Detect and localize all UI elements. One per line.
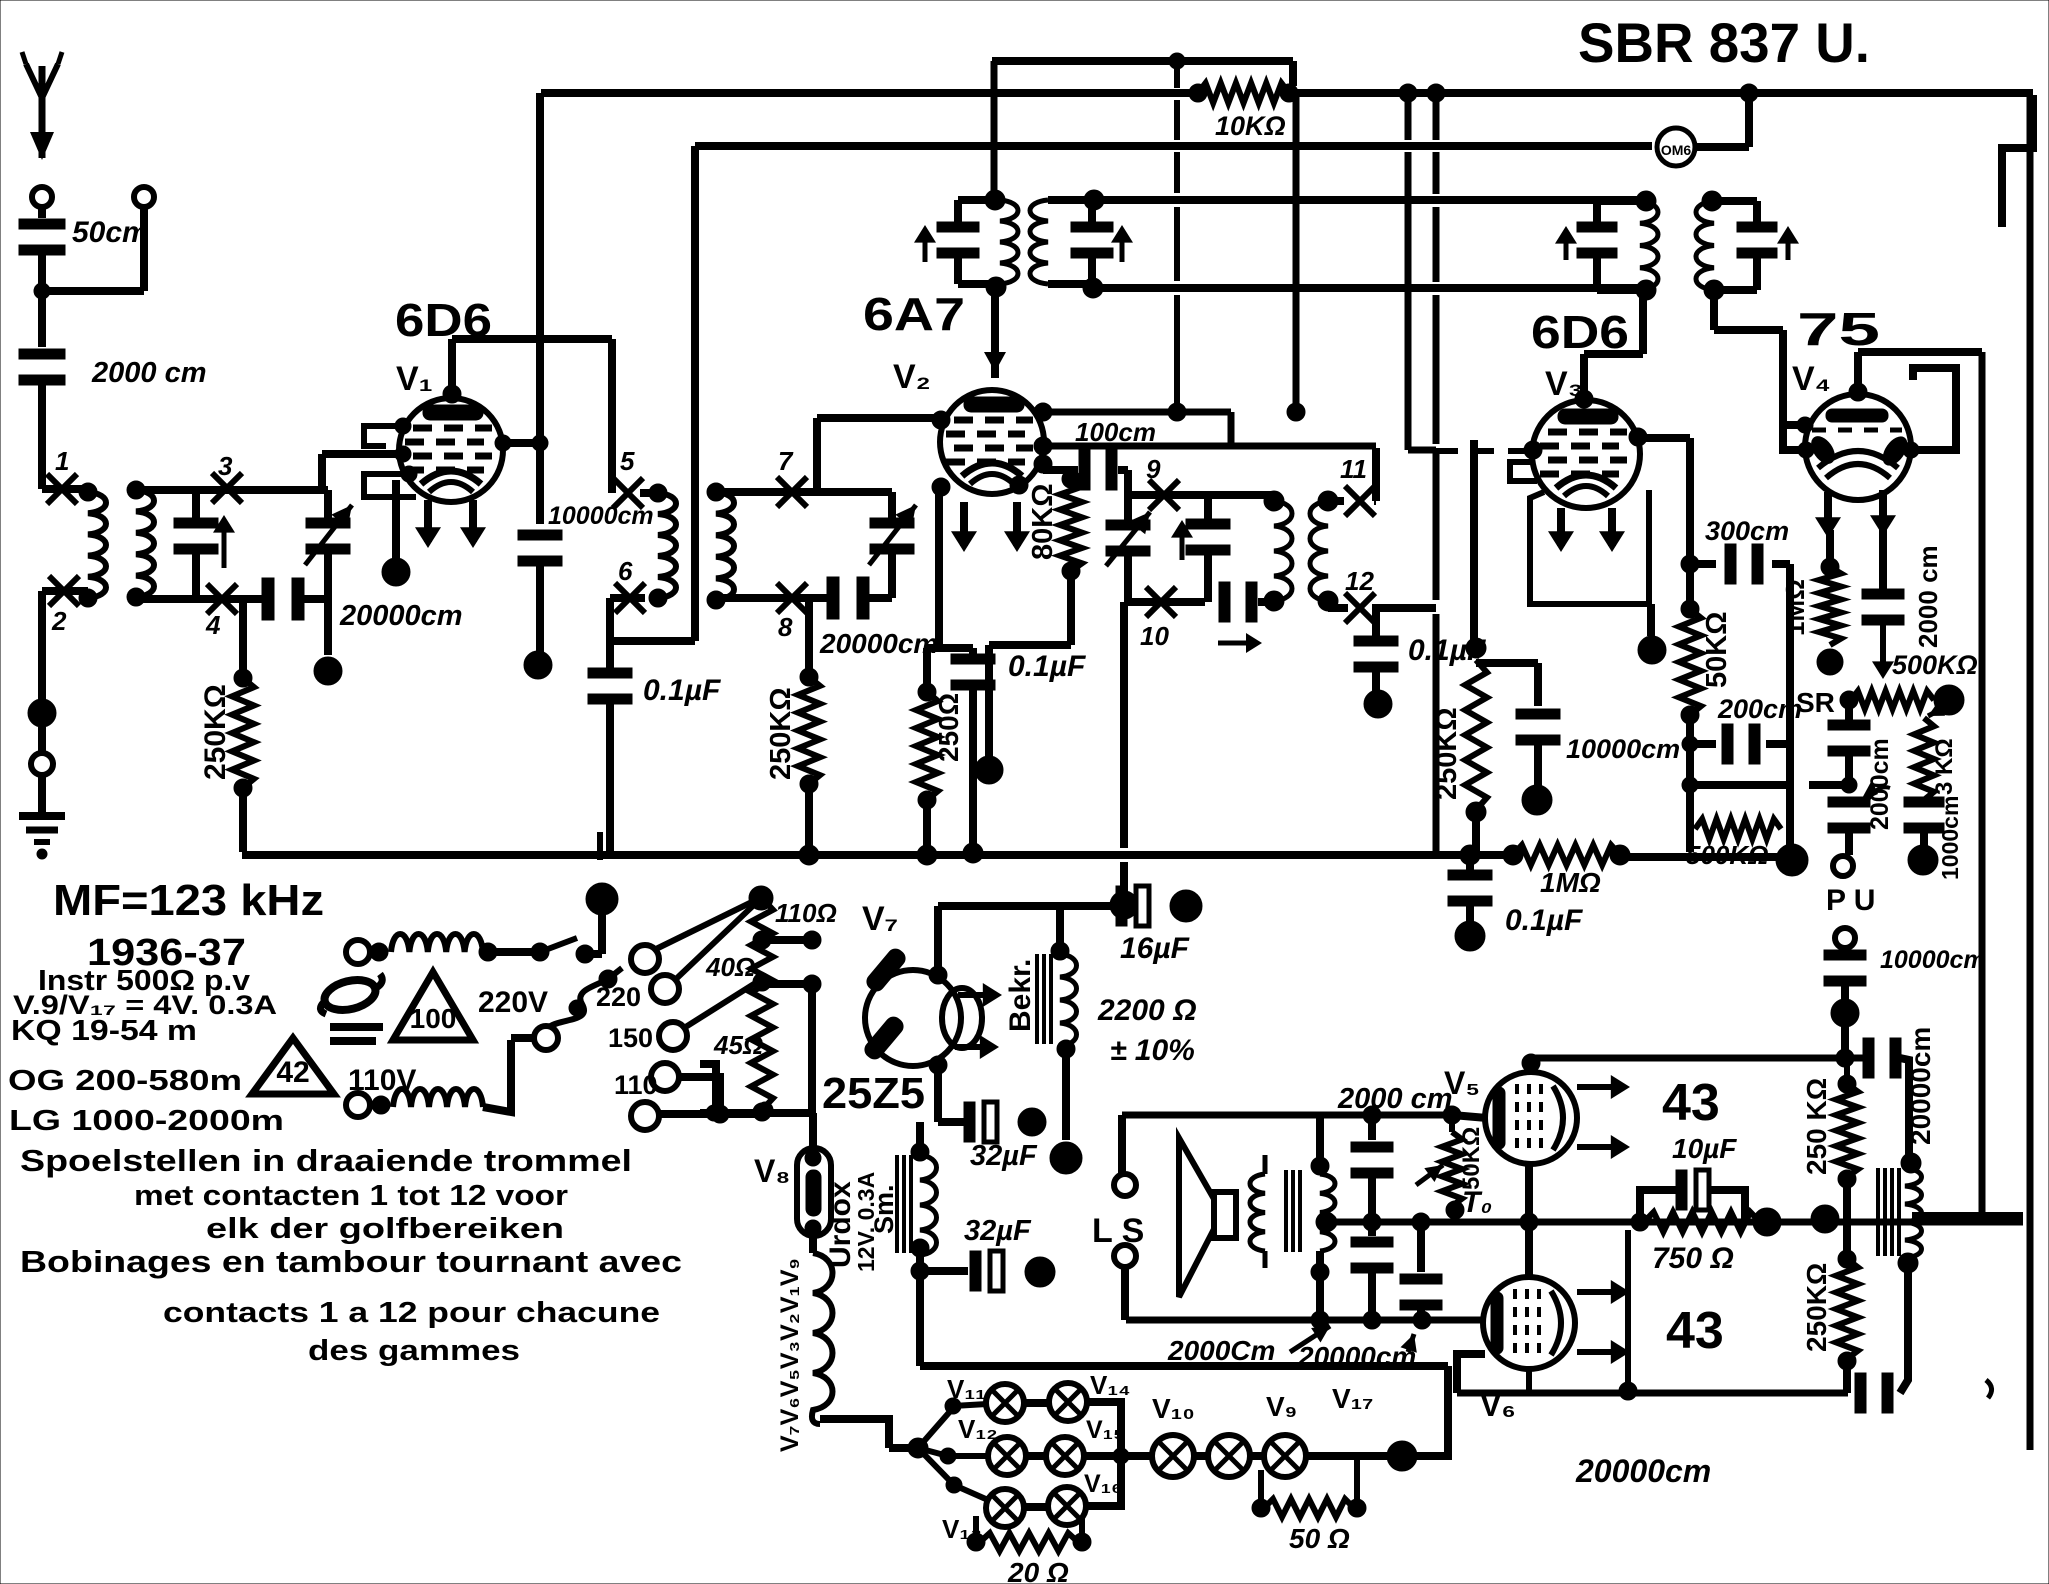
lever row1	[918, 1408, 953, 1448]
svg-text:110Ω: 110Ω	[775, 898, 837, 928]
vertical from bus C	[691, 146, 699, 641]
svg-text:L S: L S	[1092, 1212, 1144, 1250]
capacitor 300cm	[1690, 560, 1716, 568]
IF1 secondary coil	[1030, 200, 1048, 284]
svg-text:250KΩ: 250KΩ	[1431, 707, 1463, 800]
svg-text:0.1µF: 0.1µF	[643, 674, 721, 707]
vertical from bus A	[536, 93, 544, 524]
wire	[1258, 598, 1274, 606]
tube V2	[940, 390, 1044, 494]
resistor 50 ohm	[1252, 1499, 1270, 1517]
tube V4	[1805, 394, 1911, 500]
svg-text:V₄: V₄	[1792, 360, 1831, 398]
svg-text:100: 100	[410, 1003, 457, 1034]
svg-text:2: 2	[51, 606, 67, 636]
V3 bracket	[1510, 462, 1537, 481]
svg-text:250KΩ: 250KΩ	[765, 687, 797, 780]
wire	[1843, 1179, 1851, 1259]
wire	[1306, 1452, 1402, 1460]
svg-text:300cm: 300cm	[1705, 516, 1789, 546]
capacitor 2000cm spk1	[1363, 1106, 1381, 1124]
svg-text:2000 cm: 2000 cm	[1913, 545, 1943, 648]
V4 left pin wire	[1783, 440, 1806, 450]
wire	[1067, 571, 1075, 645]
V5 plate top	[1522, 1054, 1540, 1072]
resistor 10K	[1198, 83, 1289, 103]
V7 left tap wire	[808, 984, 816, 1113]
potentiometer To 50K	[1449, 1115, 1455, 1132]
speaker trafo secondary bottom	[1311, 1263, 1329, 1281]
svg-text:10000cm: 10000cm	[1880, 946, 1986, 974]
selector lever b	[676, 901, 758, 979]
wire node 4 rail	[136, 595, 262, 603]
svg-text:100cm: 100cm	[1075, 417, 1156, 447]
wire X10 drop	[1120, 602, 1128, 848]
tap	[753, 931, 771, 949]
contact 4	[207, 584, 237, 614]
contact 9	[1149, 480, 1179, 510]
resistor 1M vert	[1821, 558, 1839, 576]
capacitor 32uF a	[938, 1118, 968, 1126]
mark	[1986, 1380, 1992, 1398]
wire	[716, 488, 892, 496]
resistor 750	[1631, 1213, 1649, 1231]
wire	[1695, 143, 1749, 151]
right edge vertical	[2027, 95, 2034, 1450]
tube V5 (43)	[1485, 1072, 1577, 1164]
svg-text:110: 110	[614, 1070, 658, 1100]
V4 cathode arc	[1818, 451, 1898, 468]
vertical x1474	[1470, 440, 1478, 648]
svg-text:40Ω: 40Ω	[705, 952, 755, 982]
wire	[38, 207, 46, 218]
V4 top cap	[1826, 409, 1888, 422]
wire y785	[1690, 781, 1790, 789]
wire	[38, 775, 46, 812]
V1 plate wire	[495, 435, 511, 451]
svg-text:75: 75	[1797, 303, 1880, 355]
svg-text:250Ω: 250Ω	[933, 693, 964, 762]
bus E	[1093, 284, 1646, 292]
bus A left	[541, 89, 1194, 97]
arrow right small	[1218, 641, 1256, 646]
resistor 250 ohm	[918, 683, 936, 701]
wire	[1457, 1354, 1485, 1393]
V2 pin2	[1034, 437, 1052, 455]
capacitor 32uF b	[916, 1248, 924, 1271]
selector lever	[656, 899, 758, 949]
V4 diode plate left	[1807, 433, 1839, 468]
capacitor 0.1uF V2	[969, 648, 977, 656]
svg-text:V₁₂: V₁₂	[958, 1414, 998, 1444]
lamp V17	[1264, 1435, 1306, 1477]
V3 skirt	[1530, 492, 1649, 604]
V3 grid pin	[1524, 441, 1542, 459]
svg-text:2000 cm: 2000 cm	[1337, 1083, 1453, 1115]
IF1 primary cap	[954, 200, 962, 222]
svg-text:32µF: 32µF	[970, 1140, 1038, 1172]
V2 grid riser	[813, 418, 821, 492]
capacitor 100cm series	[1043, 466, 1078, 474]
IF1 arrow2	[1120, 231, 1125, 262]
wire	[991, 61, 998, 196]
svg-text:9: 9	[1146, 454, 1161, 484]
potentiometer SR	[1851, 691, 1934, 709]
switch coil 1	[346, 940, 370, 964]
svg-text:50KΩ: 50KΩ	[1701, 612, 1733, 688]
wire	[1625, 1230, 1631, 1391]
V2 top wire	[991, 288, 999, 378]
svg-text:20000cm: 20000cm	[1297, 1341, 1416, 1372]
arrow tuning	[222, 521, 227, 568]
svg-text:250 KΩ: 250 KΩ	[1801, 1078, 1832, 1175]
wire	[38, 385, 46, 489]
wire	[1263, 1155, 1268, 1174]
capacitor osc2 var	[1106, 520, 1150, 530]
capacitor 0.1uF osc2	[1372, 608, 1380, 636]
wire jog	[1408, 447, 1436, 454]
svg-text:Bobinages en tambour tournant: Bobinages en tambour tournant avec	[20, 1244, 682, 1279]
svg-text:V₉: V₉	[1266, 1391, 1297, 1422]
coil IF1a	[658, 493, 676, 598]
V4 top loop	[1849, 383, 1867, 401]
svg-text:8: 8	[778, 612, 793, 642]
vertical x1436 upper	[1433, 93, 1440, 140]
capacitor osc2 fixed	[1204, 495, 1212, 519]
wire	[1900, 1058, 1909, 1160]
svg-text:4: 4	[205, 610, 221, 640]
wire	[597, 832, 603, 860]
svg-text:2000 cm: 2000 cm	[91, 357, 207, 389]
junction	[1364, 690, 1392, 718]
junction	[1908, 845, 1938, 875]
wire y446	[1043, 443, 1376, 450]
lamp V9	[1208, 1435, 1250, 1477]
junction	[524, 651, 552, 679]
terminal LS2	[1114, 1245, 1136, 1267]
coil osc2 a	[1274, 501, 1292, 601]
rc loop	[1640, 1190, 1676, 1222]
IF1 arrow	[923, 231, 928, 262]
wire	[42, 587, 88, 595]
resistor 80K	[1062, 470, 1080, 488]
V2 grid pin	[932, 411, 950, 429]
svg-text:500KΩ: 500KΩ	[1892, 650, 1978, 680]
wire	[1686, 715, 1694, 852]
junction	[1831, 999, 1859, 1027]
capacitor variable trimmer	[324, 490, 332, 518]
vertical x1436	[1433, 450, 1440, 600]
svg-text:elk der golfbereiken: elk der golfbereiken	[206, 1213, 564, 1245]
svg-text:750 Ω: 750 Ω	[1652, 1242, 1734, 1275]
junction	[314, 657, 342, 685]
wire	[38, 291, 46, 347]
junction	[975, 756, 1003, 784]
wire	[302, 595, 328, 603]
wire dashed crossing	[1436, 448, 1533, 454]
coil osc2 b	[1310, 501, 1328, 601]
V5 heater arrow	[1577, 1144, 1624, 1150]
OMG circle	[1657, 128, 1695, 166]
lamp V13	[986, 1489, 1024, 1527]
capacitor pu upper	[1828, 797, 1870, 807]
svg-text:1MΩ: 1MΩ	[1780, 579, 1810, 636]
svg-text:2200 Ω: 2200 Ω	[1097, 994, 1197, 1027]
svg-text:80KΩ: 80KΩ	[1027, 484, 1059, 560]
wire grid riser	[318, 454, 326, 492]
capacitor 20000cm out bottom	[1855, 1373, 1866, 1413]
V7 plate 1	[864, 946, 909, 994]
selector circle 220	[631, 945, 659, 973]
mid bus	[1326, 1219, 2023, 1226]
wire	[1194, 1452, 1208, 1460]
svg-text:150: 150	[608, 1023, 653, 1053]
V3 plate wire	[1638, 434, 1690, 442]
wire	[1328, 604, 1348, 612]
wire	[679, 1077, 720, 1112]
wire heater return	[820, 1419, 889, 1448]
coil L1 secondary	[136, 490, 154, 597]
bottom rail	[242, 851, 1513, 859]
resistor 3K	[1914, 718, 1934, 800]
svg-text:50KΩ: 50KΩ	[1458, 1127, 1485, 1190]
IF3 secondary top	[1714, 197, 1757, 205]
resistor mains dropper	[749, 886, 773, 910]
capacitor 16uF	[1116, 886, 1127, 926]
V5 plate line	[1531, 1055, 1864, 1062]
capacitor osc padder	[888, 492, 896, 518]
svg-text:45Ω: 45Ω	[713, 1030, 763, 1060]
junction	[1776, 844, 1808, 876]
wire	[1128, 598, 1205, 606]
terminal PU1	[1833, 856, 1853, 876]
svg-text:V₁₀: V₁₀	[1152, 1393, 1195, 1424]
IF3 arrow	[1564, 232, 1569, 260]
svg-text:50 Ω: 50 Ω	[1289, 1523, 1350, 1554]
svg-text:des gammes: des gammes	[308, 1335, 520, 1367]
wire pu t	[1809, 781, 1849, 789]
capacitor 10000cm det	[1476, 659, 1538, 667]
capacitor 20000cm series	[262, 578, 274, 620]
V4 right pin	[1903, 442, 1919, 458]
V6 heater arrow	[1577, 1349, 1624, 1355]
V2 heater arrow	[1013, 502, 1021, 546]
svg-text:25Z5: 25Z5	[822, 1069, 925, 1118]
svg-text:± 10%: ± 10%	[1110, 1034, 1195, 1067]
svg-text:10µF: 10µF	[1672, 1133, 1737, 1164]
capacitor 10000cm	[518, 530, 562, 540]
svg-text:20000cm: 20000cm	[1575, 1453, 1711, 1489]
svg-text:1000cm: 1000cm	[1937, 796, 1963, 880]
junction	[908, 1438, 928, 1458]
wire	[1086, 1402, 1121, 1456]
junction	[28, 699, 56, 727]
V1 bracket 2	[364, 474, 416, 497]
capacitor 200cm	[1690, 740, 1716, 748]
svg-text:3 KΩ: 3 KΩ	[1931, 738, 1958, 795]
vertical x1984	[1979, 352, 1986, 1216]
wire	[1025, 1452, 1047, 1460]
resistor 1M horizontal	[1503, 845, 1523, 865]
arrow osc2 fixed	[1180, 526, 1185, 560]
capacitor osc2 series	[1219, 582, 1230, 622]
IF1 primary top	[958, 196, 1000, 204]
svg-text:P U: P U	[1826, 884, 1875, 917]
contact 1	[47, 474, 77, 504]
coil osc a	[716, 492, 734, 600]
svg-text:T₀: T₀	[1462, 1186, 1492, 1219]
IF3 arrow2	[1786, 232, 1791, 260]
IF3 primary cap	[1593, 201, 1601, 222]
junction	[711, 1105, 729, 1123]
svg-text:10000cm: 10000cm	[548, 502, 654, 530]
switch coil 3	[346, 1093, 370, 1117]
terminal	[31, 753, 53, 775]
wire	[1912, 1212, 2023, 1220]
switch circle lower	[534, 1026, 558, 1050]
junction	[1836, 1049, 1854, 1067]
svg-text:6: 6	[618, 556, 633, 586]
svg-text:V₂: V₂	[893, 358, 931, 396]
svg-text:110V: 110V	[348, 1064, 416, 1097]
heater bus	[700, 1109, 812, 1117]
IF3 primary bottom	[1597, 286, 1640, 294]
junction	[1455, 921, 1485, 951]
wire	[659, 1110, 763, 1118]
junction	[1811, 1205, 1839, 1233]
lever row2	[918, 1448, 948, 1456]
resistor 50K	[1681, 600, 1699, 618]
V1 grid top wire	[452, 335, 612, 343]
heater chain coil	[809, 1236, 817, 1253]
wire	[324, 599, 332, 655]
box left	[1118, 1115, 1126, 1174]
contact 8	[777, 583, 807, 613]
V2 cathode wire	[935, 488, 943, 648]
svg-text:OM6: OM6	[1661, 142, 1692, 158]
contact 3	[212, 473, 242, 503]
svg-text:LG 1000-2000m: LG 1000-2000m	[9, 1105, 284, 1137]
tap2	[753, 973, 771, 991]
selector circle 150	[659, 1022, 687, 1050]
contact 2	[49, 576, 79, 606]
wire node 3 rail	[136, 486, 328, 494]
choke Bekr	[1051, 942, 1069, 960]
svg-text:5: 5	[620, 446, 635, 476]
svg-text:7: 7	[778, 446, 794, 476]
bottom rail right	[1620, 853, 1792, 861]
V4 diode plate right	[1878, 433, 1911, 470]
svg-text:V₅: V₅	[1444, 1065, 1480, 1101]
V1 grid wire	[328, 450, 403, 458]
wire	[1085, 1456, 1121, 1506]
V1 cathode wire	[392, 480, 400, 560]
thermistor V8	[797, 1148, 831, 1236]
svg-text:V₇V₆V₅V₃V₂V₁V₉: V₇V₆V₅V₃V₂V₁V₉	[776, 1258, 804, 1452]
svg-text:250KΩ: 250KΩ	[199, 684, 232, 780]
svg-text:250KΩ: 250KΩ	[1801, 1263, 1832, 1352]
triangle 42	[252, 1038, 334, 1094]
wire	[1328, 497, 1344, 505]
ground	[19, 812, 65, 820]
wire	[1374, 497, 1376, 505]
wire sm to heater	[916, 1271, 924, 1366]
svg-text:V₇: V₇	[862, 900, 898, 938]
corner	[2002, 95, 2033, 227]
svg-text:12V. 0.3A: 12V. 0.3A	[853, 1172, 879, 1272]
bus B loop	[992, 57, 1293, 65]
capacitor 20000cm osc	[827, 577, 839, 619]
resistor 250K det	[1465, 660, 1487, 810]
junction	[1057, 1040, 1075, 1058]
svg-text:20000cm: 20000cm	[819, 628, 938, 659]
tube V1	[399, 398, 503, 502]
capacitor 2000cm sr	[1845, 700, 1853, 720]
junction	[1025, 1257, 1055, 1287]
wire	[1128, 491, 1274, 499]
wire	[1710, 290, 1718, 330]
IF3 secondary cap	[1753, 201, 1761, 222]
arrow osc2 var	[1106, 512, 1150, 566]
capacitor 10uF	[1676, 1170, 1687, 1210]
wire	[1402, 1366, 1448, 1456]
svg-text:16µF: 16µF	[1120, 932, 1190, 965]
svg-text:32µF: 32µF	[964, 1215, 1032, 1247]
wire	[610, 594, 645, 602]
IF1 primary coil	[1000, 200, 1018, 284]
capacitor 0.1uF det	[1466, 855, 1474, 870]
tube V7	[865, 970, 961, 1066]
svg-text:OG 200-580m: OG 200-580m	[8, 1065, 242, 1097]
antenna	[39, 66, 46, 158]
svg-text:V₁: V₁	[396, 360, 433, 398]
IF1 primary bottom	[958, 280, 1000, 288]
wire	[42, 485, 88, 493]
svg-text:1: 1	[55, 446, 69, 476]
V2 heater arrow	[960, 502, 968, 546]
contact 12	[1345, 593, 1375, 623]
svg-text:SBR 837 U.: SBR 837 U.	[1578, 11, 1870, 74]
svg-text:11: 11	[1340, 454, 1367, 484]
output transformer ls	[1250, 1174, 1265, 1251]
lever row3	[918, 1448, 954, 1485]
svg-text:2000Cm: 2000Cm	[1167, 1335, 1275, 1366]
V4 grid dashes	[1812, 428, 1902, 433]
V3 grid wire	[1580, 354, 1588, 400]
svg-text:V₁₅: V₁₅	[1086, 1416, 1124, 1444]
lamp V12	[988, 1437, 1026, 1475]
svg-text:V₁₇: V₁₇	[1332, 1383, 1373, 1414]
svg-text:V₁₁: V₁₁	[947, 1374, 986, 1404]
antenna terminal 2	[134, 187, 154, 207]
V3 plate pin	[1629, 428, 1647, 446]
V1 grid bracket 1	[364, 426, 403, 446]
lamp V15	[1046, 1437, 1084, 1475]
vertical x1177	[1174, 61, 1180, 88]
V1 heater arrow	[424, 500, 432, 542]
V6 bottom wire	[1526, 1369, 1532, 1393]
svg-text:43: 43	[1662, 1074, 1720, 1132]
selector circle b	[651, 975, 679, 1003]
V1 top cap wire	[443, 385, 461, 403]
contact 7	[777, 477, 807, 507]
capacitor 2000cm	[19, 349, 65, 359]
V6 heater arrow	[1577, 1289, 1624, 1295]
IF3 primary coil	[1640, 201, 1658, 290]
vertical x1790	[1786, 564, 1794, 852]
capacitor 50cm	[19, 219, 65, 229]
arrow To wiper	[1416, 1165, 1443, 1185]
